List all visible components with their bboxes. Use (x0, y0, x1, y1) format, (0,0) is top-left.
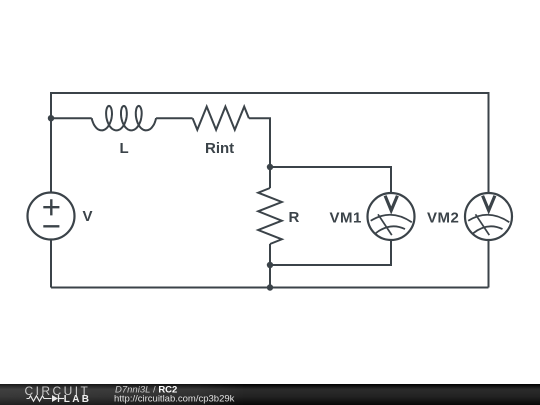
wire R to node C (269, 244, 271, 265)
node D junction (267, 284, 273, 290)
wire left rail upper (50, 92, 52, 192)
wire node B to R (269, 167, 271, 188)
svg-text:Rint: Rint (205, 140, 234, 157)
node A junction (48, 115, 54, 121)
svg-text:VM2: VM2 (427, 210, 459, 227)
wire bottom rail (51, 287, 489, 289)
wire left rail lower (50, 240, 52, 288)
wire node C to VM1 bottom (270, 240, 391, 266)
wire top rail (51, 92, 489, 94)
node C junction (267, 262, 273, 268)
node B junction (267, 164, 273, 170)
wire right rail (488, 92, 490, 193)
svg-text:L: L (120, 140, 129, 157)
inductor L (92, 106, 156, 130)
wire node C to node D (269, 265, 271, 288)
wire Rint to corner and down (249, 118, 270, 167)
wire node A to inductor (51, 117, 92, 119)
resistor Rint (193, 107, 249, 130)
svg-text:VM1: VM1 (330, 210, 362, 227)
footer CircuitLab logo (25, 384, 92, 405)
resistor R (258, 188, 282, 244)
voltmeter VM2 (465, 193, 512, 240)
svg-text:V: V (83, 208, 93, 225)
wire node B to VM1 top (270, 167, 391, 194)
voltage source V (28, 193, 75, 240)
voltmeter VM1 (368, 193, 415, 240)
svg-text:LAB: LAB (64, 394, 91, 405)
wire inductor to Rint (156, 117, 193, 119)
svg-text:R: R (289, 209, 300, 226)
svg-text:http://circuitlab.com/cp3b29k: http://circuitlab.com/cp3b29k (114, 394, 235, 405)
wire VM2 bottom lead (488, 240, 490, 288)
